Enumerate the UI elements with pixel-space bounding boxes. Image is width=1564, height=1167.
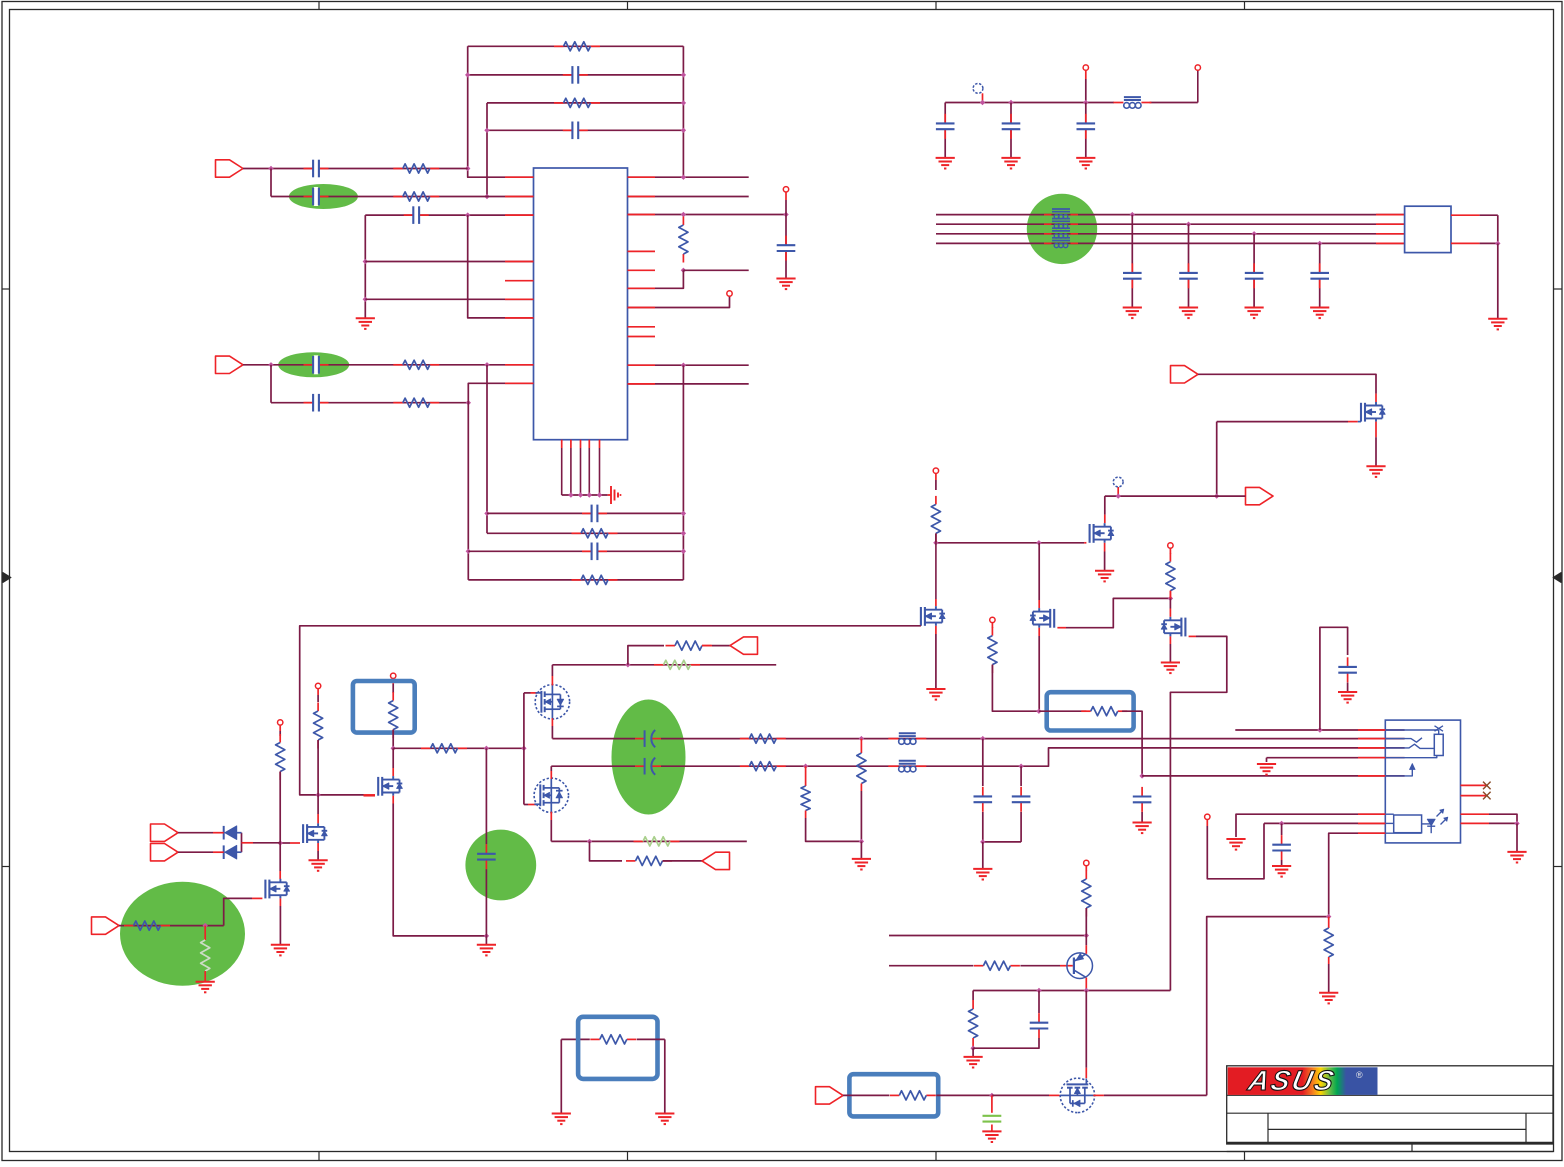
wire Q10 source down: [550, 812, 552, 842]
ground G5: [1001, 158, 1020, 169]
wire J2 right out1: [1461, 814, 1518, 823]
wire gnd stub3: [982, 842, 984, 869]
ground G4: [936, 158, 955, 169]
node drop-a: [363, 259, 368, 264]
node bus2-cap: [1186, 222, 1191, 227]
node rail-tp: [980, 100, 985, 105]
wire J1 out bottom: [1451, 242, 1498, 244]
resistor R26: [857, 739, 866, 791]
wire j2 gnd drop: [1516, 823, 1518, 852]
node pin2-join: [484, 194, 489, 199]
capacitor C14: [1123, 215, 1142, 308]
transistor Q1: [1361, 402, 1385, 422]
wire res bottoms: [806, 791, 862, 841]
power pin circle 9: [1205, 814, 1210, 826]
wire J1 out top: [1451, 215, 1498, 243]
wire bus line 4: [936, 242, 1405, 244]
capacitor C7: [304, 393, 329, 412]
ground G22: [1133, 823, 1152, 834]
capacitor C20 polarized: [635, 758, 661, 775]
capacitor C2: [563, 121, 588, 140]
capacitor C16: [1245, 234, 1264, 308]
node sense: [203, 923, 208, 928]
wire drv2 row: [393, 747, 524, 749]
ground G30: [982, 1131, 1001, 1142]
wire net-fb2 row: [468, 74, 684, 76]
wire en run: [1105, 495, 1246, 497]
wire to P9: [663, 860, 703, 862]
ground G9: [1245, 308, 1264, 319]
wire Q9 drain up: [551, 665, 553, 686]
wire gnd stub: [485, 936, 487, 945]
ground G29: [964, 1057, 983, 1068]
node bus1-cap: [1130, 212, 1135, 217]
power pin circle: [783, 187, 788, 215]
power pin circle 8: [990, 617, 995, 628]
wire Q2 source ground: [1104, 543, 1106, 571]
wire row1: [243, 168, 468, 170]
highlight box H8: [1047, 692, 1134, 730]
capacitor C19 polarized: [635, 730, 661, 747]
resistor R10: [931, 480, 940, 543]
port P8: [730, 637, 758, 654]
transistor Q3: [921, 606, 945, 626]
wire bjt emitter: [1085, 978, 1087, 991]
wire left bus2 to pin2: [486, 103, 488, 197]
wire Q4 source down: [1038, 628, 1040, 712]
port P4: [1246, 487, 1274, 504]
ground G18: [196, 982, 215, 993]
ground G24: [1257, 764, 1276, 775]
node fb4-right: [681, 128, 686, 133]
node pin365: [681, 363, 686, 368]
transistor Q12 circled: [1060, 1078, 1094, 1112]
highlight ellipse H4: [120, 882, 245, 986]
wire to Q7 gate: [224, 898, 263, 925]
transistor Q10 circled: [534, 778, 568, 812]
node fb4-left: [484, 128, 489, 133]
resistor R24: [740, 762, 786, 771]
power pin circle 10: [1084, 860, 1089, 871]
wire pin y365 right: [628, 364, 749, 366]
wire J2 nc pins: [1461, 785, 1487, 795]
highlight ellipse H1: [289, 184, 358, 209]
transistor Q11 bjt: [1067, 953, 1093, 979]
node P1-branch: [268, 166, 273, 171]
node bjt-c: [1084, 933, 1089, 938]
ground G32: [655, 1114, 674, 1125]
wire bottom bus: [562, 494, 608, 496]
transistor Q8: [378, 776, 402, 796]
power pin circle 4: [1168, 543, 1173, 554]
connector J2: [1385, 720, 1460, 843]
wire net-fb1 top row: [468, 45, 684, 47]
wire bus2 down: [486, 365, 488, 534]
ground G16: [309, 860, 328, 871]
wire rail to pin circle: [1195, 65, 1200, 103]
wire row4: [243, 364, 534, 366]
ferrite bead FB2: [888, 733, 926, 744]
ground G14: [926, 689, 945, 700]
capacitor C21: [974, 739, 993, 842]
wire pin1 right: [628, 176, 749, 178]
wire row5: [271, 402, 468, 404]
node capj: [980, 839, 985, 844]
capacitor C5: [404, 206, 429, 225]
wire Q4 gate loop: [1057, 598, 1170, 627]
wire Q4 drain up: [1038, 543, 1040, 608]
resistor R13: [314, 695, 323, 795]
transistor Q6: [303, 823, 327, 843]
wire J2 right out2: [1461, 822, 1518, 824]
capacitor C15: [1179, 224, 1198, 307]
node capg-bot: [484, 933, 489, 938]
wire pullup net: [936, 542, 1039, 544]
resistor R20: [666, 641, 712, 650]
node rowC-left: [466, 549, 471, 554]
capacitor C27 green: [983, 1095, 1002, 1131]
resistor R4: [393, 192, 439, 201]
capacitor C3: [304, 159, 329, 178]
wire Q1 gate: [1217, 421, 1361, 423]
capacitor C9: [582, 504, 607, 523]
node en-tp: [1116, 493, 1121, 498]
wire to P8: [702, 645, 730, 647]
capacitor C6: [304, 355, 329, 374]
bus pin stubs red: [1376, 215, 1405, 244]
node q2g-2: [1036, 540, 1041, 545]
wire Q9 source down: [551, 718, 553, 738]
wire sense3: [973, 990, 1170, 992]
wire Q6 source ground: [317, 843, 319, 860]
wire P5 to D1: [178, 832, 224, 834]
resistor R21 green: [634, 837, 680, 846]
chassis ground G3: [608, 486, 622, 504]
wire sense2 base: [889, 965, 1073, 967]
capacitor C11: [936, 103, 955, 158]
wire jack row3: [1207, 833, 1386, 1095]
wire rowC: [468, 550, 683, 552]
node rowA-r: [681, 511, 686, 516]
node fb3-right: [681, 100, 686, 105]
wire bus line 3: [936, 233, 1405, 235]
power pin circle 6: [278, 720, 283, 731]
ground G21: [973, 869, 992, 880]
resistor R25: [801, 766, 810, 818]
node pin3r: [681, 212, 686, 217]
resistor R9: [572, 575, 618, 584]
wire row3 cap to pin3: [365, 214, 533, 216]
node rowC-r: [681, 549, 686, 554]
node row2-r1: [803, 764, 808, 769]
node jackc: [1279, 821, 1284, 826]
power pin circle 5: [315, 683, 320, 695]
resistor R34: [590, 1035, 636, 1044]
wire Q6 gate: [280, 842, 300, 844]
wire P2 down: [270, 365, 272, 403]
wire rowB: [487, 532, 683, 534]
ground G31: [552, 1114, 571, 1125]
node drv2-c: [521, 746, 526, 751]
wire sense left drop: [561, 1039, 590, 1113]
ground G2: [776, 279, 795, 290]
resistor R18: [421, 744, 467, 753]
node row3-join: [465, 212, 470, 217]
wire Q2 gate net: [1039, 542, 1087, 544]
wire to ground: [1497, 243, 1499, 318]
wire sense row: [1267, 757, 1405, 759]
wire diode bracket: [237, 833, 242, 853]
wire gnd stub2: [860, 841, 862, 859]
node q6-gate: [278, 840, 283, 845]
wire jack row2: [1264, 822, 1385, 824]
wire audio row2: [551, 748, 1404, 766]
node fbk: [625, 662, 630, 667]
wire P6 to D2: [178, 851, 224, 853]
wire to Q12 left: [992, 1094, 1060, 1096]
node row1-c: [980, 736, 985, 741]
capacitor C25: [1272, 823, 1291, 866]
ground G20: [852, 859, 871, 870]
ground G23: [1338, 692, 1357, 703]
ground G7: [1123, 308, 1142, 319]
wire r7 out: [683, 269, 748, 271]
wire jack row1: [1236, 814, 1385, 837]
ground G12: [1366, 466, 1385, 477]
node bus3-cap: [1251, 231, 1256, 236]
wire row y262: [365, 261, 533, 263]
wire sense gnd: [1266, 758, 1268, 762]
capacitor C4: [304, 187, 329, 206]
wire gate drop: [1216, 422, 1218, 497]
node drv2-b: [484, 746, 489, 751]
wire audio row1: [552, 738, 1404, 740]
wire diode common: [242, 842, 281, 844]
resistor R23: [740, 734, 786, 743]
resistor R7: [679, 217, 688, 263]
wire box3 out: [936, 1094, 992, 1096]
wire to Q7 drain: [279, 843, 281, 879]
node pin4-join: [484, 362, 489, 367]
wire Q5 drain: [1169, 598, 1171, 616]
pins U1 bottom: [562, 440, 600, 495]
node rail-c2: [1008, 100, 1013, 105]
node mute-out: [1139, 773, 1144, 778]
wire fbk2 down row: [590, 841, 623, 861]
node mute-in: [1036, 709, 1041, 714]
port P7: [92, 917, 120, 934]
diode D2: [224, 845, 237, 859]
wire right bus of ladder: [682, 46, 684, 177]
wire Q5 source ground: [1169, 636, 1171, 662]
wire left drop bus: [364, 215, 366, 318]
transistor Q2: [1090, 523, 1114, 543]
IC U1: [534, 168, 628, 440]
node q2g-1: [933, 540, 938, 545]
wire rowD: [468, 579, 683, 581]
ground G25: [1226, 839, 1245, 850]
node pin1r: [681, 175, 686, 180]
ground G27: [1319, 993, 1338, 1004]
capacitor C12: [1002, 103, 1021, 158]
port P9: [702, 852, 730, 869]
highlight ellipse H7: [612, 700, 686, 815]
node r32b: [970, 1046, 975, 1051]
node s3b: [1084, 988, 1089, 993]
wire row q10source: [551, 840, 747, 842]
transistor Q7: [265, 879, 289, 899]
wire P10 row: [843, 1094, 889, 1096]
connector J1: [1405, 206, 1451, 252]
wire pin3 right: [628, 214, 787, 216]
wire Q12 right: [1093, 1094, 1206, 1096]
resistor R8: [572, 529, 618, 538]
ground G26: [1272, 866, 1291, 877]
diode D1: [224, 826, 237, 840]
resistor R6: [393, 398, 439, 407]
wire r7 to pin: [628, 270, 684, 288]
capacitor C8: [777, 215, 796, 279]
node drv2-a: [391, 746, 396, 751]
capacitor C23: [1133, 787, 1152, 823]
highlight circle H6: [465, 830, 536, 901]
wire long gate net: [300, 626, 921, 795]
highlight box H10: [578, 1017, 657, 1079]
power pin circle 7: [391, 673, 396, 684]
wire Q10 drain up: [550, 766, 552, 779]
wire Q7 source ground: [279, 898, 281, 944]
wire row2: [271, 196, 534, 198]
wire pin y307 to circle: [628, 291, 733, 308]
wire Q5 gate loop long: [1170, 636, 1226, 990]
wire Q3 source ground: [935, 626, 937, 689]
testpoint circle TP1: [973, 84, 983, 103]
svg-text:®: ®: [1356, 1070, 1363, 1080]
resistor R32: [969, 991, 978, 1049]
resistor R2: [554, 98, 600, 107]
node fb2-right: [681, 72, 686, 77]
ground G28: [1507, 852, 1526, 863]
resistor R15: [124, 921, 170, 930]
pin stubs U1 left: [505, 177, 534, 383]
wire Q8 gate: [364, 795, 376, 797]
node s3a: [1036, 988, 1041, 993]
pin stubs NC right: [628, 251, 656, 336]
wire pin2 right: [628, 196, 749, 198]
wire bus to pin y383: [468, 383, 533, 580]
node j1-gnd: [1495, 241, 1500, 246]
wire QB gate stub: [524, 804, 537, 806]
ground G17: [271, 945, 290, 956]
wire rowA: [487, 512, 683, 514]
node rowB-r: [681, 531, 686, 536]
node r7-bot: [681, 268, 686, 273]
pin stubs J2 left: [1358, 730, 1385, 833]
node row5-join: [466, 400, 471, 405]
port P2: [216, 356, 244, 373]
resistor R30: [1082, 871, 1091, 936]
wire bus line 1: [936, 214, 1405, 216]
svg-text:ASUS: ASUS: [1245, 1064, 1339, 1096]
wire QA gate stub: [524, 692, 538, 694]
wire detect row: [1235, 729, 1404, 731]
pin stubs U1 right red: [628, 177, 656, 384]
wire drv to QD drain: [317, 795, 319, 824]
node rowA-left: [484, 511, 489, 516]
testpoint circle TP2: [1113, 477, 1123, 496]
coupled inductor L1: [1044, 209, 1078, 248]
title block: [1227, 1066, 1553, 1152]
wire left bus to pin1: [468, 46, 534, 177]
wire mute row: [1142, 775, 1405, 777]
node vtt-top: [783, 212, 788, 217]
node bpin3: [578, 492, 583, 497]
ground G19: [477, 945, 496, 956]
wire net-fb4 row: [487, 129, 683, 131]
node bus4-cap: [1317, 241, 1322, 246]
capacitor C22: [1012, 766, 1031, 842]
node row2-c: [1018, 764, 1023, 769]
resistor R17: [389, 684, 398, 748]
capacitor C24: [1338, 657, 1357, 692]
capacitor C17: [1310, 243, 1329, 307]
ground G6: [1076, 158, 1095, 169]
wire to Q8 drain: [392, 748, 394, 776]
node r12-bot: [1168, 596, 1173, 601]
node bpin5: [597, 492, 602, 497]
transistor Q4: [1030, 608, 1054, 628]
ground G13: [1095, 571, 1114, 582]
node drop-b: [363, 297, 368, 302]
wire vcc rail: [945, 102, 1198, 104]
wire P1 down: [270, 169, 272, 197]
node fb2-left: [465, 72, 470, 77]
wire bjt collector: [1085, 936, 1087, 954]
wire fbk up row: [628, 646, 664, 665]
x mark 1: [1483, 782, 1491, 790]
port P6: [151, 844, 179, 861]
resistor R14: [276, 731, 285, 843]
wire AB gate bus: [523, 693, 525, 805]
highlight ellipse H2: [278, 352, 349, 377]
highlight box H5: [353, 681, 415, 733]
x mark 2: [1483, 792, 1491, 800]
wire q12 gate drop: [1085, 991, 1087, 1079]
wire en to Q2 drain: [1104, 496, 1106, 523]
wire sense1: [889, 935, 1086, 937]
resistor R29: [1324, 917, 1333, 993]
node q12-d: [989, 1093, 994, 1098]
ground G1: [356, 318, 375, 329]
resistor R27: [988, 627, 997, 673]
wire P7 row: [119, 925, 224, 927]
power pin circle 2: [1083, 65, 1088, 103]
wire sense right drop: [637, 1039, 665, 1113]
resistor R5: [393, 360, 439, 369]
resistor R3: [393, 164, 439, 173]
port P3: [1171, 366, 1199, 383]
resistor R19 green: [654, 660, 700, 669]
capacitor C18: [477, 748, 496, 936]
resistor R1: [554, 42, 600, 51]
resistor R16 faint: [201, 926, 210, 982]
capacitor C10: [582, 542, 607, 561]
resistor R31: [974, 961, 1020, 970]
wire bus line 2: [936, 223, 1405, 225]
capacitor C13: [1077, 103, 1096, 158]
node bpin4: [587, 492, 592, 497]
wire Q1 source to ground: [1375, 422, 1377, 467]
